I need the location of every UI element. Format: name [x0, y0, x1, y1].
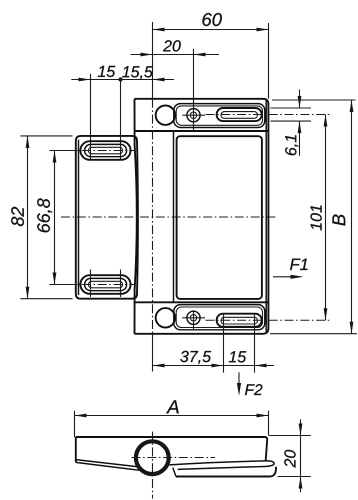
dimension 66,8 arrows — [53, 151, 57, 285]
force F2 text — [245, 384, 262, 395]
body middle pocket rectangle — [177, 136, 262, 299]
top flange pocket outer — [174, 104, 265, 128]
top screw hole inner — [190, 112, 196, 118]
plate top slot inner — [88, 147, 122, 154]
bottom flange pocket inner — [176, 307, 262, 328]
hinge pin circle bottom — [156, 308, 175, 327]
bottom flange slot inner — [221, 317, 258, 324]
force F1 text — [290, 259, 307, 270]
dimension 101 arrows — [324, 115, 328, 321]
plate bottom slot middle — [85, 278, 127, 290]
dimension 15,5 text — [122, 66, 153, 79]
dimension 20 arrows — [141, 53, 206, 57]
plate bottom slot centerline — [66, 284, 135, 286]
dimension 6,1 leaders — [271, 108, 312, 121]
dimension 37,5 text — [180, 351, 211, 364]
dimension 101 line — [325, 115, 327, 321]
dimension 6,1 text — [285, 135, 298, 155]
body flange inner edge top — [135, 130, 269, 132]
left plate inner edge line — [78, 140, 80, 295]
top flange pocket inner — [176, 106, 262, 125]
dimension 37,5 / 15 line — [153, 313, 275, 373]
dimension 15 arrow — [79, 78, 91, 82]
dimension 82 text — [11, 207, 24, 226]
dimension 15 bottom text — [229, 351, 246, 362]
plate top slot middle — [85, 144, 127, 156]
dimension 60 text — [202, 13, 221, 26]
bottom screw hole outer — [187, 311, 200, 324]
body inner right edge — [265, 101, 267, 333]
dimension 82 arrows — [26, 136, 30, 299]
dimension B line — [270, 100, 357, 334]
bottom slot centerline — [206, 319, 332, 321]
main horizontal centerline — [61, 216, 278, 218]
side view bar top edge and right end — [76, 437, 267, 460]
lever strip right edge — [173, 131, 175, 302]
dimension 37,5 arrows — [153, 364, 224, 368]
dimension 15 arrow — [255, 364, 267, 368]
dimension 20 side text — [284, 450, 295, 468]
plate top slot outer — [80, 141, 130, 160]
top screw hole crosshair — [182, 114, 205, 116]
dimension 101 text — [310, 206, 321, 231]
dimension 60 line — [153, 23, 269, 99]
top flange slot inner — [221, 112, 258, 119]
dimension 20 text — [163, 40, 181, 51]
dimension A text — [166, 400, 179, 413]
vertical centerline at body left edge — [152, 22, 154, 372]
dimension 20 line — [131, 49, 220, 131]
dimension 82 line — [20, 136, 72, 299]
dimension 60 arrows — [153, 28, 269, 32]
plate bottom slot center marks — [91, 270, 121, 298]
bottom screw hole inner — [190, 315, 196, 321]
bottom screw hole crosshair — [182, 310, 205, 329]
plate top slot centerline — [66, 150, 135, 152]
dimension A line — [75, 411, 269, 438]
dimension 20 side line — [269, 420, 311, 493]
dimension 15,5 dot — [118, 77, 122, 81]
dimension 66,8 text — [37, 198, 52, 232]
force arrow F2 — [237, 372, 241, 396]
bottom flange slot outer — [217, 314, 262, 327]
knob vertical centerline — [152, 432, 154, 499]
hinge pin circle top — [156, 106, 175, 125]
top screw hole outer — [187, 109, 200, 122]
knob horizontal centerline — [132, 457, 216, 459]
body flange inner edge bottom — [135, 301, 269, 303]
dimension 6,1 line — [299, 90, 301, 156]
top slot centerline — [206, 114, 333, 116]
top flange slot outer — [217, 108, 262, 121]
plate bottom slot outer — [80, 275, 130, 294]
knob ring — [136, 441, 169, 474]
force arrow F1 — [273, 275, 304, 279]
dimension A arrows — [75, 414, 269, 418]
bottom flange pocket outer — [174, 305, 265, 330]
side view bar left edge — [75, 437, 77, 462]
left mounting plate outline — [76, 136, 138, 299]
dimension 6,1 arrows — [298, 96, 302, 133]
dimension B text — [332, 214, 345, 225]
side view bar bottom edge — [176, 467, 276, 477]
dimension 66,8 line — [50, 151, 81, 285]
plate bottom slot inner — [88, 281, 122, 288]
dimension 15,5 arrow — [153, 78, 165, 82]
dimension 20 side arrows — [299, 424, 303, 489]
dimension B arrows — [350, 100, 354, 334]
latch body outline — [135, 99, 269, 334]
side view lip lower line — [76, 462, 140, 470]
dimension 15 text — [98, 66, 115, 77]
side view step — [173, 468, 176, 477]
dimension 15 / 15,5 line — [71, 74, 174, 161]
side view blade — [170, 461, 275, 470]
side view lip upper line — [76, 460, 137, 467]
